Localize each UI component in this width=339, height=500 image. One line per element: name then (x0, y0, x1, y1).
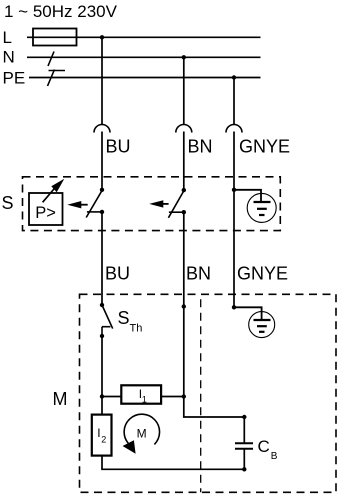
wire L bus (27, 36, 261, 38)
pressure sensor P> box (29, 193, 63, 225)
svg-text:C: C (258, 437, 270, 456)
wire BU drop (101, 37, 103, 124)
wire to earth 1 (234, 190, 261, 202)
svg-text:BU: BU (105, 264, 130, 284)
svg-text:P>: P> (35, 204, 56, 222)
wire BU S_Th to I1 node (101, 336, 103, 397)
earth symbol 2 (249, 312, 275, 338)
switch contact 2 (BN) (182, 188, 186, 192)
svg-text:BN: BN (188, 137, 213, 157)
node on L (100, 35, 104, 39)
svg-text:N: N (3, 48, 15, 67)
svg-text:1: 1 (142, 394, 147, 404)
connector BU (94, 125, 110, 133)
switch contact 1 (BU) (100, 188, 104, 192)
node on N (182, 55, 186, 59)
node BN at M box entry (182, 304, 186, 308)
thermal switch S_Th (100, 303, 104, 307)
fuse F1 on L (33, 29, 77, 46)
inner partition dashed (200, 294, 202, 492)
svg-text:GNYE: GNYE (237, 264, 288, 284)
svg-text:GNYE: GNYE (239, 137, 290, 157)
wire BN to S box (183, 132, 185, 191)
wire GNYE drop (233, 78, 235, 125)
motor rotation arrow (124, 414, 159, 444)
svg-text:PE: PE (3, 69, 26, 88)
svg-text:BU: BU (106, 137, 131, 157)
break mark on PE (48, 70, 55, 87)
wire BN node down and to capacitor (184, 397, 245, 418)
adjustment arrow on P> (43, 186, 57, 202)
wire capacitor to bottom (243, 449, 245, 470)
node BN-I1 (182, 394, 186, 398)
earth symbol 1 (247, 193, 276, 222)
wire BU to S box (101, 132, 103, 191)
svg-text:1 ~ 50Hz 230V: 1 ~ 50Hz 230V (4, 2, 118, 21)
wire to earth 2 (234, 307, 262, 320)
node BU-I1 (100, 394, 104, 398)
wire BU S box to M box (101, 212, 103, 305)
svg-text:I: I (97, 426, 100, 440)
svg-text:Th: Th (130, 323, 143, 335)
svg-text:M: M (53, 389, 68, 409)
wire PE bus (29, 77, 261, 79)
wire N bus (27, 56, 261, 58)
wire to capacitor (243, 417, 245, 443)
capacitor C_B (235, 442, 253, 444)
wire BN drop (183, 57, 185, 124)
svg-text:S: S (118, 308, 130, 328)
svg-text:BN: BN (186, 264, 211, 284)
node GNYE in S box (232, 188, 236, 192)
wire I1 to BN node (161, 396, 184, 398)
motor unit box M dashed (80, 294, 337, 492)
wire node to I1 (102, 396, 121, 398)
svg-text:B: B (271, 451, 278, 462)
svg-text:S: S (2, 193, 14, 213)
wire GNYE through S box (233, 132, 235, 308)
inductor I2 box (92, 415, 112, 456)
bottom wire (101, 468, 244, 470)
svg-text:2: 2 (101, 434, 106, 444)
node capacitor bottom (242, 467, 246, 471)
inductor I1 box (121, 385, 161, 403)
connector GNYE (226, 125, 242, 133)
wire BU node to I2 (101, 397, 103, 415)
actuation arrow to switch 1 (80, 204, 88, 206)
break mark on N (48, 52, 54, 67)
node capacitor top (242, 415, 246, 419)
connector BN (176, 125, 192, 133)
svg-text:M: M (137, 426, 147, 440)
node GNYE in M box (232, 305, 236, 309)
pressure switch box S dashed (23, 177, 281, 231)
svg-text:L: L (3, 28, 12, 47)
wire I2 to bottom (101, 456, 103, 470)
actuation arrow to switch 2 (162, 203, 169, 205)
wire BN S box to M box (183, 212, 185, 396)
node on PE (232, 75, 236, 79)
